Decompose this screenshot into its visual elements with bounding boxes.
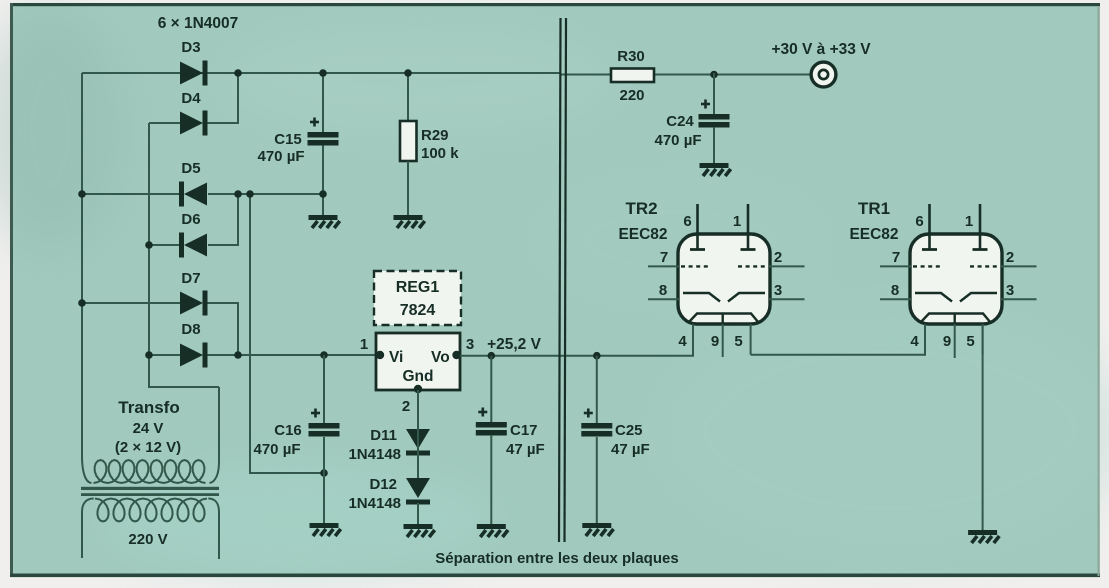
svg-text:3: 3 [466,336,474,353]
svg-text:100 k: 100 k [421,145,459,162]
svg-text:1: 1 [965,213,973,230]
TR2 heater filament [689,314,759,323]
svg-text:C15: C15 [274,131,302,148]
svg-text:470 µF: 470 µF [258,148,305,165]
svg-text:D4: D4 [181,90,201,107]
wire: rail to C25 [596,356,598,423]
TR1 anode pin 6 [928,204,931,249]
TR1 grid pin 2 wire [1001,265,1037,267]
junction: C24 on output rail [710,71,718,79]
wire: R30 to output terminal [654,74,811,76]
wire: D6 anode to riser [208,244,239,246]
svg-text:C25: C25 [615,422,643,439]
wire: regulator Gnd to D11 [417,390,419,429]
svg-text:4: 4 [678,333,687,350]
svg-text:C16: C16 [274,422,302,439]
junction: C16 top on D8 row [320,351,328,359]
junction: D7 row on left vertical [78,299,86,307]
capacitor C25 plates [581,409,612,437]
TR2 grid pin 7 wire [648,265,679,267]
junction: C17 on +25.2V rail [488,352,496,360]
svg-text:+25,2 V: +25,2 V [487,336,542,353]
svg-text:6: 6 [683,213,691,230]
transformer primary winding 220V [95,499,207,522]
wire: C17 to ground [490,435,492,524]
svg-text:470 µF: 470 µF [254,441,301,458]
svg-text:5: 5 [734,333,742,350]
regulator label box REG1 7824 (dashed) [374,271,461,325]
wire: D11 to D12 [417,426,419,478]
capacitor C17 plates [476,408,507,436]
wire: D4 row left stub [149,122,181,124]
wire: riser D6 to D5 row [237,194,239,245]
junction: D6 riser on D5 row [234,190,242,198]
ground under C17 [477,524,508,537]
svg-text:47 µF: 47 µF [611,441,650,458]
svg-text:220: 220 [619,87,644,104]
TR2 cathode pin 8 wire [648,298,679,300]
svg-text:Transfo: Transfo [118,398,179,417]
svg-text:Séparation entre les deux plaq: Séparation entre les deux plaques [435,550,678,567]
junction: D5 row on left vertical [78,190,86,198]
wire: D7 cathode to dropper [205,302,239,304]
TR2 pin 4 lead [692,324,694,356]
TR2 pin 5 lead [750,324,752,355]
diode D6 [179,233,207,258]
svg-text:+30 V à +33 V: +30 V à +33 V [771,41,871,58]
output terminal +30V..+33V [811,62,836,87]
svg-text:D11: D11 [370,427,397,444]
TR1 grid pin 7 wire [880,265,911,267]
svg-text:R30: R30 [617,48,645,65]
svg-text:3: 3 [774,282,782,299]
TR1 pin 9 stub [954,324,956,358]
ground under C16 [310,523,341,536]
TR2 anode pin 6 [696,204,699,249]
TR1 cathode pin 3 wire [1001,298,1037,300]
svg-text:7: 7 [892,249,900,266]
ground under TR1 pin 5 [968,530,999,543]
wire: D8 row left stub [149,354,181,356]
junction: C15 on top rail [319,69,327,77]
wire: negative rail drop from D5 row [249,194,251,474]
transformer secondary winding 24V [94,460,206,483]
svg-text:D5: D5 [181,160,200,177]
diode D12 [406,478,430,505]
wire: left vertical (transformer secondary top lead) [81,73,83,460]
transformer core bars [81,487,219,490]
border frame left [10,3,13,576]
wire: R29 to ground [407,161,409,215]
diode D3 [180,61,208,86]
junction: D7 dropper on D8 row [234,351,242,359]
junction: D4 riser on top rail [234,69,242,77]
wire: rail to C17 [490,356,492,422]
pin 3 node on regulator [452,351,460,359]
regulator U REG1 body Vi/Vo/Gnd [376,333,460,390]
ground under R29 [394,215,425,228]
wire: transformer secondary bottom lead vertical [218,387,220,462]
wire: regulator Vo to separator [460,355,560,357]
svg-text:8: 8 [659,282,667,299]
ground under C24 [700,163,731,176]
svg-text:1N4148: 1N4148 [348,495,401,512]
wire: second vertical (D4/D6/D8 anode bus) [148,123,150,388]
TR1 pin 4 lead [924,324,926,356]
wire: D4 cathode to riser [205,122,239,124]
svg-text:C24: C24 [666,113,694,130]
border frame right [1098,6,1100,576]
wire: D8 cathode row to regulator Vi [205,354,376,356]
svg-text:TR1: TR1 [858,199,890,218]
svg-text:220 V: 220 V [128,531,167,548]
tube TR1 EEC82 [910,234,1002,324]
junction: D8 stub on anode bus [145,351,153,359]
wire: transformer secondary bottom lead horizontal [149,386,219,388]
TR2 grid pin 2 wire [769,265,805,267]
wire: riser to TR2 pin 4 [692,324,694,356]
pin 2 node on regulator [414,385,422,393]
svg-text:24 V: 24 V [133,420,164,437]
wire: TR1 pin 5 to ground [982,324,984,530]
svg-text:2: 2 [1006,249,1014,266]
border frame top [11,3,1100,6]
wire: riser D4 to top rail [237,73,239,123]
svg-text:2: 2 [774,249,782,266]
wire: D8 row to C16 [323,355,325,423]
ground under D12 [404,524,435,537]
wire: D5 anode row to C15 bottom [208,193,324,195]
svg-text:R29: R29 [421,127,449,144]
wire: rail to C24 [713,73,715,114]
ground under C25 [582,523,613,536]
svg-text:EEC82: EEC82 [849,226,898,243]
svg-text:TR2: TR2 [625,199,657,218]
svg-text:1: 1 [733,213,741,230]
svg-text:4: 4 [910,333,919,350]
svg-text:D3: D3 [181,39,200,56]
svg-text:D12: D12 [369,476,397,493]
wire: C25 to ground [596,437,598,523]
svg-text:8: 8 [891,282,899,299]
wire: D6 row left stub [149,244,180,246]
svg-text:7824: 7824 [400,302,436,319]
wire: C16 to ground [323,437,325,523]
junction: C25 on +25.2V rail [593,352,601,360]
ground under C15 [309,215,340,228]
wire: D7 row from left vertical [82,302,181,304]
wire: C24 to ground [713,127,715,163]
junction: C15 bottom on D5 row [319,190,327,198]
TR1 cathode pin 8 wire [880,298,911,300]
TR2 anode pin 1 [747,204,750,249]
svg-text:Gnd: Gnd [403,368,434,385]
svg-text:1N4148: 1N4148 [348,446,401,463]
svg-text:(2 × 12 V): (2 × 12 V) [115,439,181,456]
svg-text:2: 2 [402,398,410,415]
svg-text:Vo: Vo [431,349,450,366]
diode D4 [180,111,208,136]
svg-text:EEC82: EEC82 [618,226,667,243]
tube TR2 EEC82 [678,234,770,324]
svg-text:1: 1 [360,336,368,353]
svg-text:9: 9 [711,333,719,350]
wire: TR2 pin 5 to TR1 pin 4 [751,354,925,356]
border frame bottom [10,574,1100,578]
TR1 pin 5 lead [982,324,984,355]
svg-text:D6: D6 [181,211,200,228]
TR2 pin 9 stub [722,324,724,357]
wire: top rail to R29 [407,73,409,121]
TR1 heater filament [921,314,991,323]
diode D5 [179,182,207,207]
svg-text:C17: C17 [510,422,538,439]
wire: top rail to C15 [322,73,324,132]
junction: C16 bottom on negative rail [320,469,328,477]
wire: D12 to ground [417,503,419,524]
svg-text:3: 3 [1006,282,1014,299]
capacitor C24 plates [699,100,730,128]
capacitor C16 plates [309,409,340,437]
wire: +25.2V rail to TR2 pin 4 riser [560,355,694,357]
resistor R29 [400,121,417,161]
diode D8 [180,343,208,368]
svg-text:9: 9 [943,333,951,350]
capacitor C15 plates [308,118,339,146]
svg-text:6: 6 [915,213,923,230]
svg-text:7: 7 [660,249,668,266]
wire: D5 row from left vertical [82,193,180,195]
wire: top rail from left vertical to separator [82,72,560,74]
wire: C15 to ground [322,145,324,215]
junction: negative drop on D5 row [246,190,254,198]
pin 1 node on regulator [376,351,384,359]
svg-text:REG1: REG1 [396,279,440,296]
wire: top rail separator to R30 [560,74,611,76]
svg-text:Vi: Vi [389,349,403,366]
separator between the two boards (double line) [559,18,561,542]
junction: D6 stub on anode bus [145,241,153,249]
svg-text:5: 5 [966,333,974,350]
svg-text:6 × 1N4007: 6 × 1N4007 [158,15,239,32]
svg-text:47 µF: 47 µF [506,441,545,458]
TR2 cathode pin 3 wire [769,298,805,300]
wire: dropper D7 to D8 row [237,303,239,355]
svg-text:470 µF: 470 µF [655,132,702,149]
diode D11 [406,429,430,456]
wire: negative rail to C16 bottom [250,472,324,474]
svg-text:D8: D8 [181,321,200,338]
TR1 anode pin 1 [979,204,982,249]
svg-text:D7: D7 [181,270,200,287]
resistor R30 [611,69,654,83]
diode D7 [180,291,208,316]
junction: R29 on top rail [404,69,412,77]
